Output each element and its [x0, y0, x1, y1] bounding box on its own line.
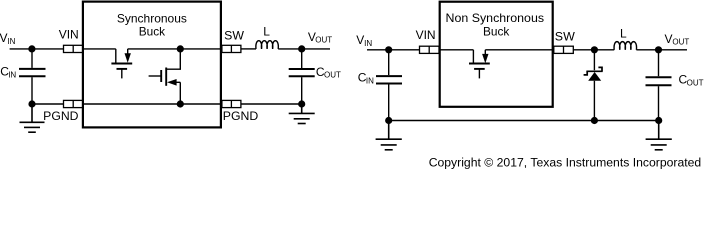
block U1 title	[117, 12, 187, 38]
diode D1 schottky	[584, 67, 603, 120]
svg-text:PGND: PGND	[43, 109, 79, 123]
svg-text:Non Synchronous: Non Synchronous	[446, 12, 545, 25]
block U2 title	[446, 12, 545, 39]
ground (under COUT)	[289, 104, 315, 124]
capacitor COUT label	[316, 65, 341, 80]
svg-text:VIN: VIN	[59, 28, 79, 42]
svg-text:V: V	[665, 32, 673, 46]
node junction dot COUT/gnd	[298, 100, 305, 107]
wire to PGND pin	[32, 103, 64, 105]
pin SW (terminal box)	[222, 45, 241, 52]
transistor Q3 FET	[469, 50, 490, 79]
wire VIN input (right)	[367, 49, 420, 51]
svg-text:IN: IN	[364, 39, 372, 48]
pin VIN (terminal box)	[64, 45, 84, 52]
inductor L1	[256, 41, 278, 49]
svg-text:V: V	[356, 33, 364, 47]
node junction dot VIN/CIN (right)	[385, 46, 392, 53]
svg-text:Buck: Buck	[139, 26, 165, 39]
ground (under COUT right)	[646, 121, 672, 150]
svg-text:OUT: OUT	[687, 78, 704, 87]
wire CIN top	[31, 49, 33, 68]
wire L to VOUT	[278, 48, 330, 50]
pin SW right (terminal box)	[554, 46, 574, 53]
capacitor COUT label (right)	[679, 73, 704, 88]
wire COUT bottom	[301, 77, 303, 104]
svg-text:IN: IN	[8, 70, 16, 79]
wire internal rail SW side	[128, 48, 221, 50]
wire PGND to COUT	[241, 103, 302, 105]
pin VIN right (terminal box)	[420, 46, 440, 53]
node junction dot VIN/CIN	[28, 45, 35, 52]
wire CIN bottom	[31, 77, 33, 104]
node VOUT label	[308, 30, 332, 45]
svg-text:SW: SW	[224, 29, 244, 43]
node junction dot gnd diode (right)	[591, 117, 598, 124]
wire internal ground rail	[84, 103, 221, 105]
svg-text:OUT: OUT	[672, 38, 689, 47]
node junction dot SW internal	[177, 45, 184, 52]
svg-text:SW: SW	[555, 30, 576, 44]
svg-text:IN: IN	[366, 76, 374, 85]
capacitor CIN label	[0, 65, 16, 80]
wire L to VOUT (right)	[636, 49, 687, 51]
pin PGND right (terminal box)	[222, 100, 241, 107]
wire SW to L	[241, 48, 256, 50]
svg-text:OUT: OUT	[324, 71, 341, 80]
svg-text:OUT: OUT	[315, 36, 332, 45]
wire internal rail VIN side (right)	[440, 49, 473, 51]
capacitor COUT (right)	[646, 77, 672, 85]
capacitor CIN label (right)	[358, 71, 374, 86]
wire CIN top (right)	[388, 50, 390, 75]
node VIN label text (right)	[356, 33, 372, 48]
wire ground rail (right)	[389, 120, 659, 122]
wire internal rail VIN side	[84, 48, 116, 50]
node junction dot SW/diode	[591, 46, 598, 53]
capacitor COUT	[289, 69, 315, 76]
node junction dot VOUT/COUT (right)	[655, 46, 662, 53]
wire diode cathode	[593, 50, 595, 70]
inductor L2	[614, 42, 636, 50]
wire internal rail SW side (right)	[485, 49, 552, 51]
wire CIN bottom (right)	[388, 85, 390, 121]
node VOUT label (right)	[665, 32, 690, 47]
node junction dot VOUT/COUT	[298, 45, 305, 52]
capacitor CIN	[19, 69, 46, 76]
svg-text:Synchronous: Synchronous	[117, 12, 187, 25]
block U1 Synchronous Buck box	[83, 2, 221, 128]
transistor Q2 low-side FET	[149, 49, 181, 104]
svg-text:PGND: PGND	[223, 109, 259, 123]
svg-text:V: V	[0, 31, 8, 45]
wire COUT top (right)	[658, 50, 660, 76]
wire VIN input	[10, 48, 64, 50]
transistor Q1 high-side FET	[111, 49, 132, 79]
node VIN label text	[0, 31, 16, 46]
svg-text:VIN: VIN	[416, 28, 436, 42]
node junction dot PGND internal	[177, 100, 184, 107]
wire COUT top	[301, 49, 303, 68]
svg-text:Buck: Buck	[483, 26, 509, 39]
ground (under CIN)	[20, 104, 45, 132]
pin PGND left (terminal box)	[64, 100, 84, 107]
node junction dot gnd CIN (right)	[385, 117, 392, 124]
svg-text:IN: IN	[7, 37, 15, 46]
wire COUT bottom (right)	[658, 86, 660, 120]
svg-text:L: L	[620, 27, 627, 41]
wire SW to L (right)	[573, 49, 614, 51]
node junction dot gnd COUT (right)	[655, 117, 662, 124]
ground (under CIN right)	[376, 121, 402, 150]
block U2 Non Synchronous Buck box	[440, 2, 553, 107]
capacitor CIN (right)	[376, 76, 402, 83]
node junction dot CIN/gnd	[28, 100, 35, 107]
svg-text:Copyright © 2017, Texas Instru: Copyright © 2017, Texas Instruments Inco…	[429, 156, 702, 170]
svg-text:L: L	[263, 25, 270, 39]
